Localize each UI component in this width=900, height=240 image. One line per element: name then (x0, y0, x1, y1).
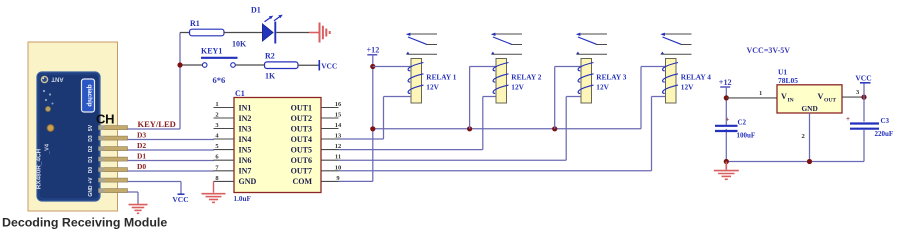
svg-text:10K: 10K (232, 40, 247, 49)
antenna hole (41, 76, 47, 82)
svg-text:IN5: IN5 (239, 145, 252, 154)
+12 net label (relays) (367, 46, 380, 55)
svg-text:C1: C1 (235, 89, 245, 98)
net label D1 (137, 152, 146, 161)
svg-text:12V: 12V (681, 83, 694, 92)
junction dot KEY1 node (177, 62, 182, 67)
wire module GND (128, 192, 139, 203)
C1 value 1.0uF (234, 195, 252, 203)
net label KEY/LED (138, 119, 176, 129)
qiachip logo block (82, 79, 95, 112)
C1 pin 16 (OUT1) (291, 101, 342, 112)
relay coil RELAY 4 (663, 59, 678, 104)
svg-text:12V: 12V (596, 83, 609, 92)
svg-text:2: 2 (802, 133, 805, 140)
svg-text:V: V (781, 92, 787, 101)
svg-text:GND: GND (239, 177, 257, 186)
svg-text:ANT: ANT (51, 76, 64, 82)
ANT silkscreen label (51, 76, 64, 82)
svg-text:D1: D1 (251, 6, 261, 15)
voltage regulator U1 78L05 (777, 68, 842, 114)
wire U1 pin 2 (GND) (802, 113, 810, 162)
svg-text:15: 15 (335, 112, 342, 119)
svg-text:OUT1: OUT1 (291, 103, 312, 112)
PCB vias (43, 90, 54, 131)
wire to R1 (180, 32, 190, 34)
svg-text:IN6: IN6 (239, 156, 252, 165)
wire KEY/LED (128, 128, 181, 130)
label 12V relay 3 (596, 83, 609, 92)
svg-text:2: 2 (215, 112, 218, 119)
C1 pin 3 (IN3) (214, 122, 252, 133)
junction dot bus at relay3 (552, 126, 557, 131)
V4 silkscreen (45, 143, 51, 155)
svg-text:+V: +V (88, 177, 94, 184)
wire VCC rail to C3 to bus (863, 84, 865, 162)
C1 pin 7 (IN7) (214, 164, 252, 175)
label VCC=3V-5V (747, 46, 791, 55)
C1 pin 8 (GND) (214, 175, 257, 186)
wire +12 to C2 to bus (725, 87, 727, 162)
svg-text:COM: COM (292, 177, 312, 186)
junction dot U1 pin3 (861, 95, 866, 100)
junction dot bus at relay2 (467, 126, 472, 131)
wire U1 pin 1 (726, 90, 777, 98)
svg-text:1: 1 (759, 90, 762, 97)
C1 pin 6 (IN6) (214, 154, 252, 165)
svg-text:220uF: 220uF (875, 130, 894, 138)
wire coil return relay 2 to OUT (339, 97, 497, 150)
svg-text:78L05: 78L05 (778, 76, 798, 85)
C1 pin 13 (OUT4) (291, 133, 342, 144)
svg-text:VCC: VCC (321, 61, 337, 70)
wire R2 to VCC (298, 64, 319, 66)
C1 pin 9 (COM) (292, 175, 340, 186)
svg-text:100uF: 100uF (737, 132, 756, 140)
wire D2 (128, 149, 215, 151)
svg-text:R1: R1 (190, 19, 200, 28)
net label D0 (137, 162, 146, 171)
wire +12 feed relay 3 (555, 67, 581, 129)
svg-text:5V: 5V (88, 124, 94, 131)
power port VCC (R2) (319, 60, 337, 71)
svg-text:D1: D1 (137, 152, 146, 161)
svg-text:D3: D3 (88, 135, 94, 142)
svg-text:GND: GND (88, 185, 94, 197)
wire U1 pin 3 (out) (842, 89, 864, 97)
wire D3 (128, 139, 215, 141)
svg-text:CH: CH (96, 111, 114, 126)
svg-text:RELAY 3: RELAY 3 (596, 73, 626, 82)
relay contact RELAY 3 (576, 33, 607, 55)
svg-text:GND: GND (802, 104, 818, 113)
svg-text:IN1: IN1 (239, 103, 252, 112)
C1 pin 1 (IN1) (214, 101, 252, 112)
svg-text:Decoding Receiving Module: Decoding Receiving Module (2, 216, 167, 230)
wire R1 to D1 (224, 32, 263, 34)
C1 pin 12 (OUT5) (291, 143, 342, 154)
svg-text:IN: IN (788, 98, 794, 104)
svg-text:+: + (726, 116, 730, 124)
wire +12 feed relay 4 (641, 67, 666, 129)
svg-text:OUT7: OUT7 (291, 167, 312, 176)
C1 pin 2 (IN2) (214, 112, 252, 123)
decoder IC C1 body (234, 89, 321, 193)
svg-text:C3: C3 (881, 117, 890, 125)
svg-text:OUT4: OUT4 (291, 135, 312, 144)
relay contact RELAY 4 (660, 33, 691, 55)
svg-text:1: 1 (215, 101, 218, 108)
C1 pin 4 (IN4) (214, 133, 252, 144)
svg-text:IN4: IN4 (239, 135, 252, 144)
label RELAY 4 (681, 73, 711, 82)
svg-text:_V4: _V4 (45, 143, 51, 155)
power port VCC (regulator out) (855, 74, 871, 83)
svg-text:OUT3: OUT3 (291, 124, 312, 133)
label RELAY 3 (596, 73, 626, 82)
wire ground bus (power) (726, 161, 864, 163)
svg-text:KEY1: KEY1 (201, 47, 222, 56)
wire KEY1 to R2 (235, 64, 264, 66)
svg-text:D0: D0 (137, 162, 146, 171)
wire D1 (128, 160, 215, 162)
wire KEY/LED vertical riser (179, 33, 181, 130)
receiver module PCB RX480R_4CH (37, 72, 100, 201)
wire coil return relay 4 to OUT (339, 97, 666, 171)
wire to KEY1 (183, 64, 203, 66)
ground (power bus) (714, 162, 739, 180)
label 12V relay 2 (511, 83, 524, 92)
resistor R1 (190, 19, 248, 49)
svg-text:D3: D3 (137, 131, 146, 140)
svg-text:+12: +12 (367, 46, 380, 55)
label 12V relay 1 (426, 83, 439, 92)
svg-text:IN7: IN7 (239, 167, 252, 176)
svg-text:RX480R_4CH: RX480R_4CH (36, 148, 43, 189)
capacitor C3 (846, 115, 893, 138)
ground (module) (129, 203, 148, 213)
C1 pin 10 (OUT7) (291, 164, 342, 175)
svg-text:1K: 1K (265, 72, 276, 81)
svg-text:OUT2: OUT2 (291, 114, 312, 123)
svg-text:12V: 12V (511, 83, 524, 92)
svg-text:OUT6: OUT6 (291, 156, 312, 165)
wire +12 feed relay 2 (470, 67, 496, 129)
C1 pin 14 (OUT3) (291, 122, 342, 133)
svg-text:RELAY 4: RELAY 4 (681, 73, 711, 82)
svg-text:D2: D2 (137, 141, 146, 150)
svg-text:RELAY 2: RELAY 2 (511, 73, 541, 82)
label 12V relay 4 (681, 83, 694, 92)
label RELAY 2 (511, 73, 541, 82)
wire module VCC (128, 182, 182, 195)
svg-text:D0: D0 (88, 167, 94, 174)
receiver module yellow frame (28, 42, 118, 211)
CH label (96, 111, 114, 126)
power port VCC (module) (172, 194, 188, 204)
push button KEY1 (201, 47, 238, 86)
net label D3 (137, 131, 146, 140)
junction dot relay1 feed (370, 64, 375, 69)
net label D2 (137, 141, 146, 150)
svg-text:14: 14 (335, 122, 342, 129)
+12 net label (regulator) (719, 78, 732, 87)
C1 pin 11 (OUT6) (291, 154, 341, 165)
svg-text:VCC: VCC (855, 74, 871, 83)
C1 pin 15 (OUT2) (291, 112, 342, 123)
svg-text:16: 16 (335, 101, 342, 108)
wire +12 riser / COM return (339, 55, 373, 182)
svg-text:+: + (846, 115, 850, 123)
relay contact RELAY 1 (406, 33, 437, 55)
LED D1 (251, 6, 283, 44)
svg-text:+12: +12 (719, 78, 732, 87)
module pad silkscreen labels (88, 124, 94, 196)
wire D1 to ground (276, 32, 318, 34)
svg-text:C2: C2 (738, 119, 747, 127)
junction dot bus at relay1 (370, 126, 375, 131)
relay coil RELAY 3 (578, 59, 593, 104)
svg-text:R2: R2 (265, 52, 275, 61)
wire +12 bus (373, 128, 641, 130)
ground (C1 pin 8) (202, 181, 226, 202)
relay coil RELAY 2 (493, 59, 508, 104)
wire +12 feed relay 1 (373, 66, 411, 68)
module header pads (99, 126, 128, 193)
junction dot U1 pin1 (724, 95, 729, 100)
svg-text:VCC: VCC (172, 195, 188, 204)
ground (after D1) (320, 23, 330, 43)
svg-text:1.0uF: 1.0uF (234, 195, 252, 203)
junction dot bus-C2 (724, 159, 729, 164)
svg-text:V: V (818, 92, 824, 101)
resistor R2 (265, 52, 299, 81)
wire D0 (128, 170, 215, 172)
svg-text:D1: D1 (88, 156, 94, 163)
svg-text:D2: D2 (88, 146, 94, 153)
svg-text:IN2: IN2 (239, 114, 252, 123)
caption Decoding Receiving Module (2, 216, 167, 230)
svg-text:IN3: IN3 (239, 124, 252, 133)
svg-text:KEY/LED: KEY/LED (138, 119, 176, 129)
relay contact RELAY 2 (491, 33, 522, 55)
RX480R_4CH silkscreen (36, 148, 43, 189)
svg-text:12V: 12V (426, 83, 439, 92)
svg-text:OUT: OUT (824, 98, 836, 104)
svg-text:OUT5: OUT5 (291, 145, 312, 154)
svg-text:VCC=3V-5V: VCC=3V-5V (747, 46, 791, 55)
svg-text:qiachip: qiachip (86, 84, 93, 106)
wire coil return relay 1 to OUT (339, 97, 412, 140)
wire coil return relay 3 to OUT (339, 97, 582, 161)
label RELAY 1 (426, 73, 456, 82)
C1 pin 5 (IN5) (214, 143, 252, 154)
capacitor C2 (715, 116, 755, 140)
svg-text:6*6: 6*6 (213, 75, 226, 85)
svg-text:RELAY 1: RELAY 1 (426, 73, 456, 82)
relay coil RELAY 1 (408, 59, 423, 104)
junction dot bus-pin2 (807, 159, 812, 164)
